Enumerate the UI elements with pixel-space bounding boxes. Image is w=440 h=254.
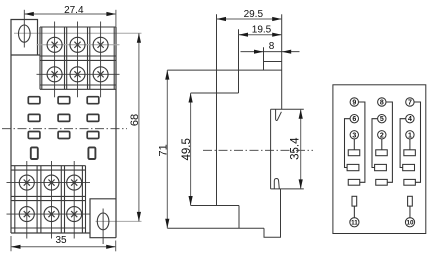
svg-text:1: 1	[408, 132, 412, 139]
rail channel face	[270, 109, 272, 189]
NO contact 1	[348, 179, 360, 185]
bottom hole vertical centerline	[102, 209, 104, 245]
wire 9 to NO contact	[359, 102, 365, 182]
screw B3	[67, 175, 82, 190]
back edge / ext	[281, 14, 283, 109]
foot	[264, 189, 281, 237]
screw B6	[67, 207, 82, 222]
coil terminal 10	[405, 196, 414, 227]
body right edge	[115, 27, 117, 238]
wire 2 to common contact	[381, 139, 383, 150]
svg-text:68: 68	[129, 114, 141, 126]
relay pin slots row B	[28, 114, 40, 121]
svg-text:29.5: 29.5	[244, 9, 264, 20]
wire 6 to NC contact	[345, 119, 351, 168]
side view centerline (dash-dot)	[203, 149, 313, 151]
svg-text:49.5: 49.5	[181, 138, 193, 160]
top terminal block outline	[40, 27, 116, 89]
terminal 6	[350, 115, 358, 123]
hook box top (8 dim line level)	[241, 51, 300, 53]
terminal 8	[378, 98, 386, 106]
bottom block row centerlines	[7, 183, 91, 215]
terminal 3	[350, 131, 358, 139]
svg-text:35.4: 35.4	[289, 137, 301, 160]
top surface	[167, 69, 281, 71]
bottom surface	[167, 227, 264, 229]
wire 1 to common contact	[409, 139, 411, 150]
svg-text:3: 3	[352, 132, 356, 139]
top block column centerlines	[55, 22, 101, 98]
dimension 27.4	[24, 10, 116, 27]
svg-text:7: 7	[408, 100, 412, 107]
svg-text:2: 2	[380, 132, 384, 139]
mounting hole centerline (top, gray)	[14, 32, 142, 34]
svg-text:19.5: 19.5	[252, 25, 272, 36]
bottom clip bump	[274, 179, 279, 189]
screw B4	[19, 207, 34, 222]
body bottom edge	[11, 232, 90, 234]
common contact 3	[404, 150, 416, 156]
screw A3	[93, 37, 108, 52]
svg-text:11: 11	[351, 220, 358, 227]
bottom terminal block outline	[11, 166, 86, 233]
wire 7 to NO contact	[414, 102, 420, 182]
terminal 2	[378, 131, 386, 139]
dimension 35	[11, 236, 116, 251]
top hole vertical centerline	[23, 10, 25, 48]
column 3 : terminals 7/4/1	[400, 98, 420, 185]
screw A1	[47, 37, 62, 52]
top mounting tab	[11, 20, 38, 56]
NC contact 2	[375, 164, 387, 170]
dimension 8 (outside arrows)	[254, 50, 291, 54]
svg-text:27.4: 27.4	[64, 5, 84, 16]
terminal 1	[406, 131, 414, 139]
svg-text:9: 9	[352, 100, 356, 107]
wire 3 to common contact	[353, 139, 355, 150]
svg-text:5: 5	[380, 116, 384, 123]
screw A4	[47, 67, 62, 82]
top block row centerlines	[37, 44, 120, 46]
screw B2	[44, 175, 59, 190]
relay pin slots row C	[28, 132, 40, 139]
hook box left edge / 8 ext	[263, 47, 265, 70]
bottom mounting tab	[90, 199, 116, 238]
screw B5	[44, 207, 59, 222]
bottom mounting hole (obround)	[97, 213, 109, 230]
NO contact 3	[404, 179, 416, 185]
top mounting hole (obround)	[19, 25, 31, 42]
svg-text:71: 71	[158, 144, 170, 156]
wire 8 to NO contact	[386, 102, 392, 182]
NC contact 1	[347, 164, 359, 170]
NO contact 2	[376, 179, 388, 185]
schematic border	[333, 85, 426, 234]
svg-text:8: 8	[380, 100, 384, 107]
extension line front face / 29.5	[216, 14, 218, 205]
dimension 68	[137, 33, 141, 221]
top tab bottom edge	[11, 54, 40, 56]
relay pin slots row A	[28, 97, 40, 104]
bottom block column centerlines	[27, 161, 74, 239]
dimension 35.4	[299, 109, 303, 189]
screw A5	[70, 67, 85, 82]
wire 5 to NC contact	[372, 119, 378, 168]
wire coil to 11	[353, 206, 355, 218]
NC contact 3	[403, 164, 415, 170]
common contact 2	[376, 150, 388, 156]
terminal 5	[378, 115, 386, 123]
extension line / step edge 19.5	[238, 29, 240, 93]
svg-text:6: 6	[352, 116, 356, 123]
column 1 : terminals 9/6/3	[345, 98, 365, 185]
hook box inner line	[264, 61, 282, 63]
screw A6	[93, 67, 108, 82]
body left edge	[10, 55, 12, 233]
relay coil slots row D	[31, 147, 38, 159]
terminal 4	[406, 115, 414, 123]
rail channel top	[271, 108, 304, 110]
dimension 29.5	[217, 17, 282, 21]
wire coil to 10	[409, 206, 411, 218]
mounting hole centerline (bottom, gray)	[96, 220, 142, 222]
terminal 7	[406, 98, 414, 106]
rail flange bottom	[271, 188, 304, 190]
svg-text:10: 10	[406, 220, 414, 227]
top claw	[276, 109, 282, 120]
svg-text:35: 35	[55, 235, 67, 246]
dimension 19.5	[239, 33, 282, 37]
column 2 : terminals 8/5/2	[372, 98, 392, 185]
dimension 71	[165, 70, 169, 228]
svg-text:4: 4	[408, 116, 412, 123]
screw A2	[70, 37, 85, 52]
terminal 9	[350, 98, 358, 106]
screw B1	[19, 175, 34, 190]
coil terminal 11	[350, 196, 359, 227]
lower front edge	[238, 206, 240, 229]
dimension 49.5	[189, 93, 193, 206]
svg-text:8: 8	[269, 41, 275, 52]
step line	[191, 92, 239, 94]
common contact 1	[348, 150, 360, 156]
horizontal centerline of left view (dash-dot)	[2, 128, 127, 130]
bottom front step	[191, 205, 239, 207]
wire 4 to NC contact	[400, 119, 406, 168]
